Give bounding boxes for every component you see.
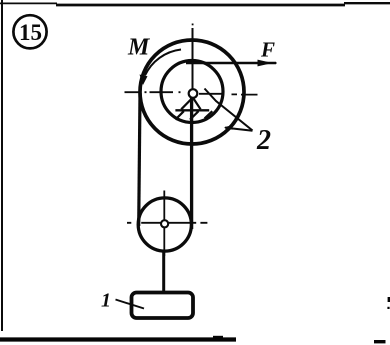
- pulley 2 axle pin circle: [189, 89, 198, 98]
- rope small pulley to block: [162, 251, 165, 292]
- block 1 (load): [132, 293, 194, 319]
- bottom black bar: [0, 337, 236, 341]
- leader line B with arrowhead to label 2: [225, 128, 253, 131]
- small pulley vertical centerline: [163, 191, 165, 257]
- svg-text:1: 1: [101, 290, 111, 312]
- support base line: [175, 109, 209, 111]
- pulley 2 outer circle: [140, 40, 244, 144]
- svg-text:M: M: [127, 35, 151, 61]
- badge circle 15: [13, 15, 46, 48]
- pulley 2 inner circle: [161, 61, 223, 123]
- support hatch 2: [190, 111, 199, 119]
- svg-text:2: 2: [256, 125, 271, 156]
- leader line A to label 2: [205, 89, 253, 131]
- moment arc M: [145, 50, 181, 76]
- svg-text:F: F: [260, 38, 275, 62]
- right-edge mark lower: [387, 307, 389, 309]
- rope left (outer pulley to small pulley): [139, 93, 140, 226]
- border top line: [0, 3, 390, 5]
- rope right (pulley axle down to small pulley): [190, 96, 193, 229]
- support hatch 1: [175, 111, 183, 119]
- support pin triangle: [181, 98, 200, 110]
- small pulley axle pin: [161, 220, 168, 227]
- moment arc arrowhead: [140, 75, 148, 86]
- leader line to label 1: [116, 300, 145, 309]
- force F line: [186, 62, 276, 65]
- border left line: [1, 0, 3, 331]
- svg-text:15: 15: [19, 20, 42, 45]
- pulley 2 vertical centerline: [192, 24, 194, 26]
- pulley 2 horizontal centerline (dash-dot): [125, 92, 258, 94]
- small pulley horizontal centerline (dash-dot): [127, 222, 207, 224]
- small pulley circle: [138, 198, 191, 251]
- bottom-right dash: [374, 340, 386, 343]
- right-edge mark upper: [388, 297, 390, 302]
- support hatch 3: [205, 111, 213, 118]
- force F arrowhead: [258, 60, 273, 67]
